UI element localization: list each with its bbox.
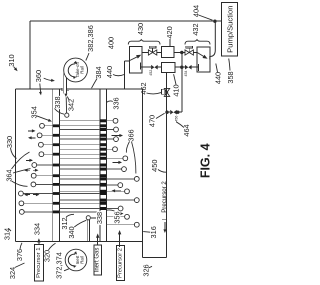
rail 2 bold segment left 4 [100, 164, 106, 167]
manifold bottom edge [16, 241, 143, 243]
rail 1 bold segment 7 [53, 192, 60, 195]
node second dot bypass row [176, 111, 179, 114]
svg-text:FIG. 4: FIG. 4 [199, 143, 213, 178]
wire valve to pump box 432 [193, 52, 197, 54]
arrow from Inert Gas into manifold [97, 236, 99, 245]
rail 1 bold segment 1 [53, 134, 60, 137]
wire charge box 420 to junction [174, 52, 185, 54]
flow arrow pair left middle pointing right [33, 169, 38, 171]
svg-text:Precursor 2: Precursor 2 [161, 181, 168, 213]
wire bypass row 464 [167, 111, 170, 113]
inert rail circulation symbol 372 374 [65, 249, 87, 271]
charge box 410 lower [162, 63, 176, 73]
pump box 432 [197, 47, 210, 72]
wire top exhaust line to pump [30, 20, 215, 22]
wire charge box 410 to junction bottom row [175, 66, 185, 68]
source box Inert Gas [94, 245, 102, 275]
flow arrow on tube left upper [28, 130, 35, 132]
tube right row 3 between rails [59, 148, 100, 150]
tube right row 7 outlet branch with circle [106, 184, 118, 186]
svg-text:376: 376 [15, 249, 24, 261]
svg-text:310: 310 [7, 54, 16, 66]
diagonal arrow inside pump box 432 [197, 53, 205, 58]
svg-text:430: 430 [136, 23, 145, 35]
tube left row 2 inlet branch with circle [43, 144, 53, 146]
svg-text:366: 366 [127, 129, 136, 141]
flow arrow right zone middle [113, 161, 122, 163]
manifold left wall [15, 89, 17, 242]
rail 1 bold segment 4 [53, 164, 60, 167]
tube left row 2 between rails [59, 144, 100, 146]
tube left row 7 between rails [59, 193, 100, 195]
arrow from Precursor 1 into manifold [38, 242, 40, 245]
svg-text:354: 354 [29, 106, 38, 118]
tube left row 4 between rails [59, 164, 100, 166]
svg-text:454: 454 [184, 71, 188, 77]
rail 2 bold segment left 8 [100, 202, 106, 205]
rail 2 bold segment right 1 [100, 128, 106, 131]
flow arrow right zone upper [112, 135, 123, 137]
svg-text:440: 440 [214, 72, 223, 84]
tube left row 5 inlet branch with circle [36, 175, 53, 177]
rail 2 bold segment left 3 [100, 153, 106, 156]
tube left row 6 between rails [59, 183, 100, 185]
port bar inside pump box 430 right [139, 63, 141, 70]
flow arrow pair left middle pointing left [25, 169, 30, 171]
rail 2 bold segment right 0 [100, 119, 106, 122]
tube 342 double wall from take-off rail circle [63, 73, 65, 94]
flow arrow pair left lower pointing right [33, 194, 39, 196]
rail 1 left wall [52, 89, 54, 242]
Pump/Suction box [222, 3, 238, 57]
valve filled left bottom row [151, 65, 154, 70]
nozzle circle 338 top [65, 113, 69, 117]
tube right row 1 outlet branch with circle [106, 129, 114, 131]
rail 2 bold segment right 8 [100, 190, 106, 193]
tube left row 9 inlet branch with circle [24, 211, 53, 213]
flow arrow on tube left middle [26, 159, 32, 161]
tube left row 0 inlet branch with circle [44, 125, 53, 127]
charge box 420 upper [162, 47, 175, 58]
wire left outer wall of take-off duct [29, 21, 31, 89]
flow arrow pair left lower pointing left [25, 194, 30, 196]
tube right row 0 outlet branch with circle [106, 120, 113, 122]
tube right row 0 between rails [59, 120, 100, 122]
tube right row 1 between rails [59, 129, 100, 131]
svg-text:470: 470 [148, 115, 157, 127]
svg-text:356: 356 [112, 211, 121, 223]
tube left row 3 inlet branch with circle [43, 153, 52, 155]
flow arrowhead on tube 342 [64, 94, 67, 97]
tube left row 1 between rails [59, 134, 100, 136]
svg-text:Rail: Rail [80, 66, 85, 74]
svg-text:316: 316 [149, 226, 158, 238]
rail 1 bold segment 5 [53, 174, 60, 177]
rail 1 bold segment 9 [53, 211, 60, 214]
rail 2 bold segment left 6 [100, 183, 106, 186]
rail 2 bold segment right 10 [100, 207, 106, 210]
svg-text:330: 330 [5, 136, 14, 148]
svg-text:464: 464 [182, 124, 191, 136]
tube left row 0 between rails [59, 125, 100, 127]
arrow from Precursor 2 into manifold [119, 234, 121, 247]
rail 1 right wall [58, 89, 60, 242]
rail 1 bold segment 3 [53, 153, 60, 156]
tube right row 11 outlet branch with circle [106, 216, 125, 218]
svg-text:384: 384 [94, 66, 103, 78]
wire precursor2 riser 450 vertical line [166, 73, 168, 258]
rail 2 bold segment left 2 [100, 143, 106, 146]
brace for group 430 [128, 40, 160, 45]
svg-text:420: 420 [165, 26, 174, 38]
tube right row 8 between rails [59, 190, 100, 192]
wire line from junction to Pump/Suction box [215, 20, 221, 22]
tube right row 4 between rails [59, 157, 100, 159]
svg-text:338: 338 [95, 212, 104, 224]
tube right row 8 outlet branch with circle [106, 190, 125, 192]
svg-text:Precursor 1: Precursor 1 [36, 247, 42, 277]
tube right row 4 outlet branch with circle [106, 157, 123, 159]
rail 1 bold segment 8 [53, 202, 60, 205]
tube right row 5 between rails [59, 168, 100, 170]
tube right row 3 outlet branch with circle [106, 148, 113, 150]
manifold right wall 450 connection [142, 89, 144, 257]
manifold top edge 384 line [16, 88, 63, 90]
svg-text:338: 338 [53, 96, 62, 108]
wire precursor2 bottom pipe horizontal [143, 256, 167, 258]
valve filled right bottom row [185, 65, 188, 70]
tube left row 5 between rails [59, 175, 100, 177]
svg-text:Rail: Rail [80, 256, 85, 264]
tube left row 9 between rails [59, 211, 100, 213]
svg-text:342: 342 [67, 99, 76, 111]
source box Precursor 2 [116, 245, 124, 280]
node junction dot bottom row [180, 66, 183, 69]
rail 2 bold segment left 5 [100, 174, 106, 177]
tube right row 2 outlet branch with circle [106, 138, 114, 140]
tube left row 4 inlet branch with circle [36, 164, 52, 166]
wire valve to charge box 420 [157, 52, 162, 54]
svg-text:450: 450 [150, 160, 159, 172]
svg-text:456: 456 [174, 116, 178, 122]
valve 432 inlet open with actuator [185, 50, 193, 55]
rail 2 bold segment right 4 [100, 157, 106, 160]
break tick left on tube 342 [61, 88, 63, 91]
svg-text:382,386: 382,386 [86, 25, 95, 52]
wire pump riser from junction 404 down to pump 432 [210, 21, 216, 60]
svg-text:358: 358 [226, 71, 235, 83]
tube left row 6 inlet branch with circle [35, 183, 52, 185]
svg-text:360: 360 [34, 70, 43, 82]
rail 2 bold segment right 7 [100, 184, 106, 187]
svg-text:Pump/Suction: Pump/Suction [225, 6, 234, 53]
flow arrow right zone bottom [114, 213, 123, 215]
svg-text:372,374: 372,374 [55, 252, 64, 279]
node junction dot 470 [165, 111, 168, 114]
tube right row 6 between rails [59, 178, 100, 180]
rail 1 bold segment 0 [53, 124, 60, 127]
svg-text:324: 324 [8, 267, 17, 279]
break tick right on tube 342 [67, 88, 69, 91]
tube left row 8 between rails [59, 202, 100, 204]
tube right row 5 outlet branch with circle [106, 168, 122, 170]
rail 2 bold segment left 1 [100, 134, 106, 137]
tube right row 10 between rails [59, 208, 100, 210]
rail 2 bold segment right 5 [100, 168, 106, 171]
tube right row 2 between rails [59, 138, 100, 140]
valve 430 outlet open with actuator [148, 50, 156, 55]
svg-text:364: 364 [4, 169, 13, 181]
tube right row 9 between rails [59, 199, 100, 201]
rail 2 bold segment right 2 [100, 138, 106, 141]
wire valve to pump box 432 port [192, 66, 199, 68]
tube right row 10 outlet branch with circle [106, 208, 118, 210]
svg-text:334: 334 [33, 223, 42, 235]
tube left row 1 inlet branch with circle [42, 134, 53, 136]
tube right row 12 outlet branch with circle [106, 224, 135, 226]
brace for group 432 [185, 40, 210, 45]
rail 2 bold segment left 7 [100, 192, 106, 195]
wire top charge row [143, 52, 149, 54]
rail 1 bold segment 2 [53, 143, 60, 146]
tube left row 7 inlet branch with circle [23, 193, 53, 195]
rail 2 bold segment right 9 [100, 199, 106, 202]
svg-text:432: 432 [191, 23, 200, 35]
svg-text:440: 440 [105, 66, 114, 78]
port bar inside pump box 432 left [197, 64, 199, 71]
valve 462 on vertical charge line with actuator [164, 88, 169, 96]
rail 2 left wall [99, 89, 101, 242]
svg-text:410: 410 [172, 84, 181, 96]
flow arrow right zone lower pointing left [113, 190, 122, 192]
svg-text:Inert Gas: Inert Gas [95, 248, 101, 273]
flow arrow on tube left upper pointing left [29, 137, 36, 139]
source box Precursor 1 [35, 245, 44, 282]
node junction dot top row [180, 51, 183, 54]
svg-text:Precursor 2: Precursor 2 [117, 248, 123, 278]
tube left row 3 between rails [59, 153, 100, 155]
wire to charge box 410 [158, 66, 162, 68]
wire bypass row to right riser [176, 111, 182, 113]
wire tube 342 lower single segment [65, 97, 67, 113]
tube right row 6 outlet branch with circle [106, 178, 135, 180]
tube right row 9 outlet branch with circle [106, 199, 135, 201]
tube right row 7 between rails [59, 184, 100, 186]
svg-text:452: 452 [149, 70, 153, 76]
inert inlet tube at bottom with circle [86, 216, 90, 220]
rail 2 bold segment right 3 [100, 148, 106, 151]
take-off rail circulation symbol 382 386 [64, 58, 88, 82]
svg-text:340: 340 [67, 226, 76, 238]
wire vertical junction riser right [181, 53, 183, 113]
svg-text:326: 326 [142, 264, 151, 276]
svg-text:336: 336 [112, 97, 121, 109]
tube left row 8 inlet branch with circle [23, 202, 52, 204]
svg-text:400: 400 [107, 37, 116, 49]
wire bottom charge row [141, 66, 151, 68]
rail 1 bold segment 6 [53, 183, 60, 186]
rail 2 right wall [105, 89, 107, 242]
valve 464 filled [170, 110, 173, 115]
pump box 430 [130, 47, 143, 73]
node 404 junction dot [213, 20, 216, 23]
rail 2 bold segment right 6 [100, 177, 106, 180]
wire take-off riser 440 into pump 430 with arrow [124, 61, 126, 89]
svg-text:320: 320 [43, 250, 52, 262]
rail 2 bold segment left 0 [100, 124, 106, 127]
